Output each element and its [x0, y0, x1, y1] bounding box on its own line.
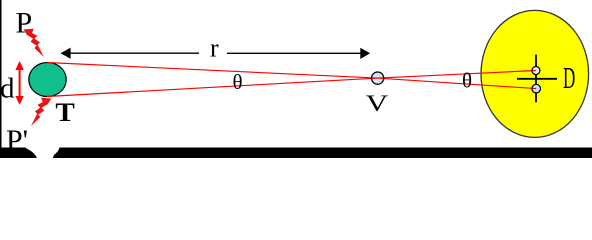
svg-text:θ: θ	[462, 69, 472, 93]
svg-text:P': P'	[6, 124, 28, 157]
white blob over bar	[26, 139, 60, 158]
lightning bolt P (upper)	[24, 29, 44, 57]
crosshair horizontal line	[517, 78, 557, 80]
svg-text:V: V	[366, 91, 389, 116]
svg-text:D: D	[563, 62, 575, 95]
bottom black bar	[0, 148, 592, 159]
r arrowhead left	[61, 48, 71, 59]
crosshair vertical line	[535, 55, 537, 103]
r dimension arrow right segment	[227, 52, 368, 54]
retina image point bottom outline	[532, 84, 541, 93]
svg-text:r: r	[210, 33, 219, 62]
lightning bolt P' (lower)	[31, 98, 51, 126]
eye ball D (yellow ellipse)	[481, 10, 589, 137]
r dimension arrow left segment	[63, 52, 199, 54]
svg-text:P: P	[16, 6, 33, 39]
ray from V to top retina point	[378, 71, 536, 79]
retina image point top outline	[532, 67, 540, 75]
svg-text:d: d	[0, 72, 15, 104]
vertex V circle fill	[372, 72, 384, 84]
d dimension double arrow	[15, 61, 23, 105]
r arrowhead right	[360, 48, 370, 59]
retina image point bottom fill	[532, 84, 541, 93]
vertex V circle outline	[372, 72, 384, 84]
ray from bottom of T to V	[47, 78, 378, 96]
retina image point top fill	[532, 67, 540, 75]
ray from top of T to V	[47, 63, 378, 79]
left border line	[0, 0, 2, 158]
svg-text:T: T	[55, 97, 74, 126]
ray from V to bottom retina point	[378, 78, 537, 89]
svg-text:θ: θ	[233, 70, 243, 94]
object T (green disc)	[29, 63, 66, 97]
